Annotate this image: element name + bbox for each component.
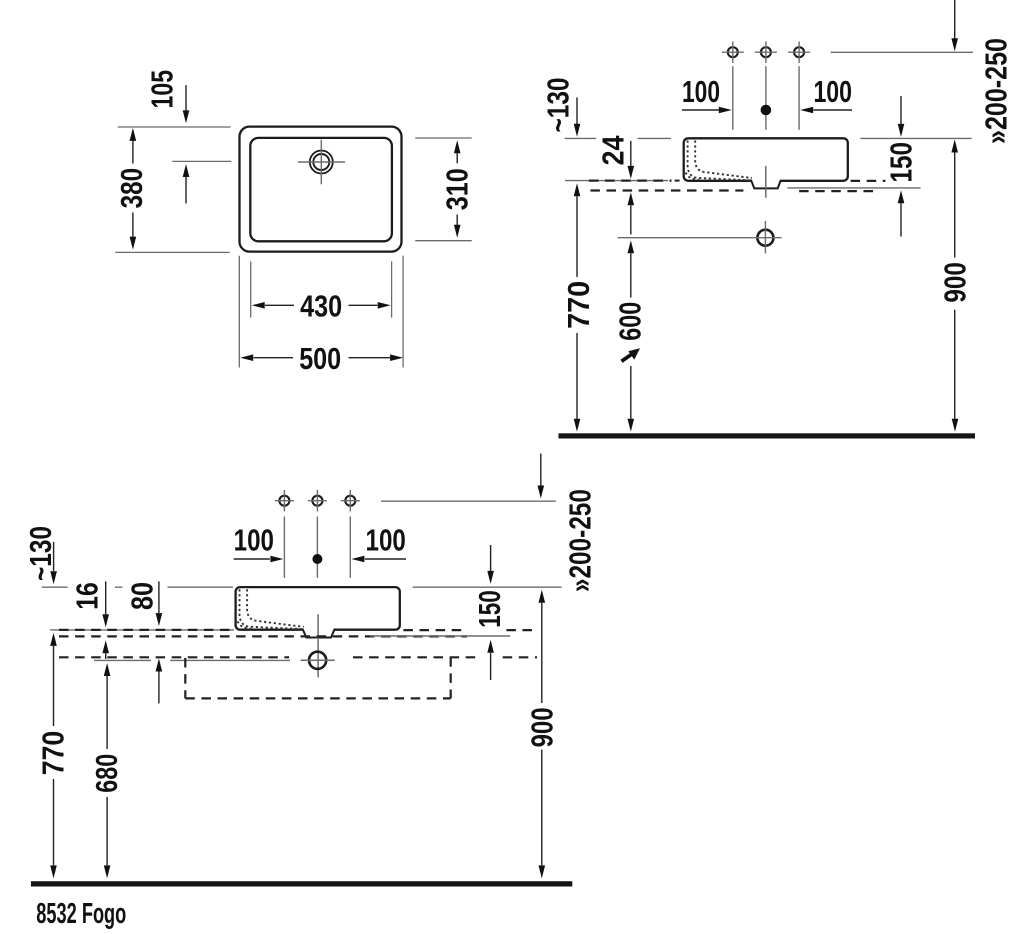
- lower reference dashed line left (view B): [590, 189, 743, 191]
- svg-text:600: 600: [612, 302, 647, 341]
- waste outlet circle (view B): [757, 230, 773, 246]
- dim 900 upper arrowhead (view C): [539, 590, 546, 603]
- dim ~130 arrow line (view B): [576, 97, 578, 124]
- svg-text:»200-250: »200-250: [562, 489, 597, 592]
- supply circle 2 crosshair (view B): [755, 51, 777, 53]
- basin bottom hidden dashes left (view B): [589, 180, 672, 182]
- washbasin profile body (view B): [684, 138, 848, 181]
- dim 24 lower arrow line (view B): [630, 205, 632, 234]
- dim 310 lower line: [456, 215, 458, 226]
- dim ~130 arrowhead (view B): [574, 124, 581, 137]
- basin bottom short dash before basin (view B): [675, 180, 680, 182]
- faucet axis dot (view C): [313, 555, 322, 564]
- side elevation (wall mount) - top right view: [0, 0, 1, 1]
- floor line (view B): [559, 433, 976, 438]
- rim extension line right (view C): [413, 586, 562, 588]
- supply circle 1 drop line (view B): [732, 66, 734, 130]
- supply circle 1 crosshair (view C): [275, 500, 294, 502]
- dim 600 lower arrowhead (view B): [628, 419, 635, 432]
- svg-text:8532 Fogo: 8532 Fogo: [36, 898, 126, 930]
- dim 680 lower line (view C): [106, 797, 108, 865]
- dim 680 upper arrowhead (view C): [104, 663, 111, 676]
- furniture top solid line segment 1 (view C): [94, 659, 151, 661]
- dim 770 upper arrowhead (view B): [574, 183, 581, 196]
- dim 150 upper arrowhead (view C): [487, 571, 494, 584]
- svg-text:100: 100: [366, 522, 406, 557]
- waste outlet circle (view C): [309, 652, 326, 669]
- svg-text:900: 900: [524, 707, 559, 747]
- dim 310 upper line: [456, 153, 458, 164]
- dim 150 lower arrowhead (view B): [898, 190, 905, 203]
- svg-text:100: 100: [813, 74, 852, 109]
- dim 80 lower arrowhead (view C): [156, 659, 163, 672]
- supply level reference line right (view C): [381, 500, 556, 502]
- dim 500 left line: [253, 357, 293, 359]
- bowl hidden corner arc dotted (view B): [686, 173, 700, 180]
- dim 100 left arrowhead (view B): [719, 107, 732, 114]
- dim 500 right arrowhead: [390, 354, 403, 361]
- svg-text:16: 16: [70, 582, 105, 610]
- dim 150 upper arrowhead (view B): [898, 124, 905, 137]
- furniture top dashed line right (view C): [503, 656, 537, 658]
- drain notch erase (view B): [751, 179, 780, 183]
- dim 24 upper arrowhead (view B): [628, 166, 635, 179]
- dim 770 lower arrowhead (view B): [574, 419, 581, 432]
- dim 100 left line (view B): [682, 109, 719, 111]
- dim 770 upper line (view C): [53, 646, 55, 726]
- supply level reference line right (view B): [831, 51, 973, 53]
- svg-text:»200-250: »200-250: [979, 38, 1014, 144]
- svg-text:500: 500: [299, 341, 341, 376]
- basin bottom hidden dashes left (view C): [59, 629, 234, 631]
- dim 80 upper arrow line (view C): [158, 581, 160, 613]
- svg-text:310: 310: [439, 168, 474, 210]
- lower reference solid line right (view B): [788, 187, 921, 189]
- dim 200-250 drop line from top (view C): [540, 454, 542, 486]
- side elevation (on furniture) - bottom left view: [0, 0, 1, 1]
- dim 500 left arrowhead: [240, 354, 253, 361]
- plan extension line inner-left vertical: [250, 261, 252, 317]
- supply circle 3 drop line (view C): [349, 517, 351, 578]
- dim 100 left line (view C): [234, 558, 270, 560]
- drain notch erase (view C): [303, 627, 334, 631]
- dim 24 upper arrow line (view B): [630, 141, 632, 166]
- bowl hidden contour outer dotted (view C): [240, 589, 303, 629]
- dim 150 lower arrowhead (view C): [487, 640, 494, 653]
- bowl hidden contour inner dotted (view B): [695, 141, 752, 179]
- furniture unit dashed right edge (view C): [450, 657, 452, 698]
- dim 100 right line (view B): [814, 109, 853, 111]
- svg-text:150: 150: [883, 142, 918, 183]
- dim 100 right arrowhead (view B): [800, 107, 813, 114]
- dim 770 lower line (view C): [53, 779, 55, 865]
- dim 150 lower arrow line (view C): [490, 653, 492, 680]
- basin bottom hidden dashes right (view B): [851, 180, 886, 182]
- furniture top dashed line left (view C): [59, 656, 289, 658]
- plan view: washbasin seen from above: [0, 0, 1, 1]
- dim 16 lower arrow line (view C): [105, 653, 107, 659]
- rim extension line left segment 2 (view B): [638, 137, 671, 139]
- svg-text:900: 900: [937, 262, 972, 303]
- svg-text:680: 680: [89, 754, 124, 793]
- supply circle 2 crosshair (view C): [308, 500, 327, 502]
- svg-text:105: 105: [145, 70, 180, 109]
- svg-text:150: 150: [472, 590, 507, 628]
- dim 16 upper arrowhead (view C): [102, 614, 109, 627]
- dim 500 right line: [349, 357, 391, 359]
- rim extension line right (view B): [860, 137, 971, 139]
- supply connection circle 1 (view C): [279, 496, 289, 506]
- dim 600 continuation marker NE arrow (view B): [622, 354, 633, 361]
- plan drain crosshair vertical: [320, 140, 322, 185]
- supply connection circle 2 (view C): [312, 496, 322, 506]
- dim 105 upper arrowhead: [183, 110, 190, 123]
- plan drain inner circle: [313, 154, 329, 170]
- waste outlet crosshair vertical (view B): [764, 221, 766, 253]
- washbasin profile body (view C): [236, 587, 400, 630]
- dim 150 lower arrow line (view B): [900, 203, 902, 236]
- plan extension line bottom edge (left): [115, 251, 229, 253]
- dim 430 left line: [265, 304, 294, 306]
- svg-text:100: 100: [682, 74, 720, 109]
- lower reference dashed line right (view B): [799, 190, 879, 192]
- plan extension line inner bottom (right): [415, 240, 472, 242]
- dim 600 lower line (view B): [630, 366, 632, 419]
- basin bottom hidden dashes right 1 (view C): [403, 629, 466, 631]
- svg-text:770: 770: [561, 281, 596, 329]
- plan outer rim rectangle: [240, 127, 402, 252]
- furniture unit dashed bottom edge (view C): [185, 697, 450, 699]
- dim 100 right arrowhead (view C): [351, 556, 364, 563]
- dim 600 upper line (view B): [630, 253, 632, 297]
- furniture top solid line segment 2 (view C): [170, 659, 290, 661]
- rim extension line left segment 1 (view B): [565, 137, 597, 139]
- dim 770 lower line (view B): [576, 333, 578, 419]
- dim 100 left arrowhead (view C): [270, 556, 283, 563]
- counter level line solid left (view B): [565, 180, 668, 182]
- dim 16 lower arrowhead (view C): [102, 640, 109, 653]
- dim 430 right line: [349, 304, 378, 306]
- basin centre line (view B): [765, 166, 767, 198]
- waste outlet crosshair horizontal (view C): [301, 659, 335, 661]
- rim extension line left segment 3 (view C): [168, 586, 234, 588]
- plan inner bowl rectangle: [250, 138, 392, 241]
- dim 80 upper arrowhead (view C): [156, 613, 163, 626]
- waste outlet level line (view B): [618, 237, 782, 239]
- plan extension line drain level (left): [172, 160, 231, 162]
- dim 310 lower arrowhead: [454, 225, 461, 238]
- supply connection circle 3 (view C): [345, 496, 355, 506]
- dim 600 upper arrowhead (view B): [628, 240, 635, 253]
- bowl hidden corner arc dotted (view C): [238, 621, 252, 628]
- supply connection circle 2 (top view B): [761, 47, 771, 57]
- plan extension line outer-right vertical: [402, 256, 404, 368]
- furniture top dashed line mid (view C): [353, 656, 476, 658]
- supply circle 1 drop line (view C): [283, 517, 285, 578]
- dim 380 upper arrowhead: [130, 128, 137, 141]
- dim 24 lower arrowhead (view B): [628, 192, 635, 205]
- counter underside dashed line left (view C): [59, 635, 467, 637]
- dim ~130 arrow line (view C): [53, 542, 55, 571]
- dim 900 upper line (view C): [541, 603, 543, 703]
- plan extension line outer-left vertical: [238, 256, 240, 368]
- dim 680 upper line (view C): [106, 676, 108, 749]
- svg-text:~130: ~130: [541, 78, 576, 133]
- dim 900 lower line (view B): [954, 310, 956, 419]
- rim extension line left segment 2 (view C): [115, 586, 123, 588]
- dim 105 upper arrow line: [185, 85, 187, 111]
- dim 900 lower line (view C): [541, 750, 543, 866]
- dim 100 right line (view C): [365, 558, 406, 560]
- dim 900 lower arrowhead (view B): [952, 419, 959, 432]
- dim 200-250 arrowhead (view C): [538, 486, 545, 499]
- dim 80 lower arrow line (view C): [158, 672, 160, 704]
- dim 380 lower line: [132, 213, 134, 237]
- counter underside solid line right (view C): [370, 635, 510, 637]
- bowl hidden contour inner dotted (view C): [247, 589, 304, 627]
- dim 150 upper arrow line (view B): [900, 96, 902, 124]
- dim 105 lower arrow line: [185, 177, 187, 204]
- dim 900 upper arrowhead (view B): [951, 140, 958, 153]
- dim 105 lower arrowhead: [183, 164, 190, 177]
- rim extension line left segment 1 (view C): [42, 586, 68, 588]
- drain notch outline (view B): [751, 180, 781, 189]
- supply circle 1 crosshair (view B): [722, 51, 744, 53]
- dim ~130 arrowhead (view C): [50, 571, 57, 584]
- bowl hidden contour outer dotted (view B): [688, 141, 751, 181]
- dim 900 lower arrowhead (view C): [539, 865, 546, 878]
- dim 150 upper arrow line (view C): [490, 545, 492, 571]
- supply circle 2 drop line (view C): [316, 517, 318, 578]
- basin bottom hidden dashes right 2 (view C): [506, 629, 537, 631]
- supply circle 3 crosshair (view C): [341, 500, 360, 502]
- dim 680 lower arrowhead (view C): [104, 865, 111, 878]
- supply circle 3 crosshair (view B): [788, 51, 810, 53]
- svg-text:100: 100: [234, 522, 274, 557]
- dim 380 upper line: [132, 141, 134, 164]
- plan extension line inner top (right): [415, 137, 472, 139]
- furniture unit dashed left edge (view C): [184, 658, 186, 698]
- plan drain crosshair horizontal: [298, 161, 345, 163]
- dim 770 upper arrowhead (view C): [50, 633, 57, 646]
- dim 310 upper arrowhead: [454, 140, 461, 153]
- dim 430 left arrowhead: [252, 302, 265, 309]
- svg-text:80: 80: [125, 582, 160, 610]
- plan extension line top edge (left): [118, 126, 231, 128]
- supply circle 2 drop line (view B): [765, 66, 767, 130]
- dim 380 lower arrowhead: [130, 237, 137, 250]
- dim 16 upper arrow line (view C): [105, 581, 107, 614]
- dim 900 upper line (view B): [954, 153, 956, 258]
- plan drain outer circle: [310, 151, 333, 174]
- counter level line solid left (view C): [50, 629, 234, 631]
- svg-text:430: 430: [300, 289, 342, 324]
- dim 430 right arrowhead: [378, 302, 391, 309]
- floor line (view C): [31, 881, 572, 886]
- supply connection circle 3 (top view B): [794, 47, 804, 57]
- dim 200-250 arrowhead (view B): [951, 38, 958, 51]
- plan extension line inner-right vertical: [391, 261, 393, 317]
- basin centre line (view C): [317, 614, 319, 677]
- supply connection circle 1 (top view B): [728, 47, 738, 57]
- dim 770 lower arrowhead (view C): [50, 865, 57, 878]
- dim 200-250 drop line from top (view B): [954, 0, 956, 39]
- svg-text:770: 770: [36, 731, 71, 776]
- svg-text:24: 24: [596, 135, 631, 166]
- faucet axis dot (view B): [761, 105, 771, 115]
- dim 770 upper line (view B): [576, 196, 578, 277]
- supply circle 3 drop line (view B): [798, 66, 800, 130]
- svg-text:380: 380: [114, 168, 149, 209]
- drain notch outline (view C): [302, 629, 334, 638]
